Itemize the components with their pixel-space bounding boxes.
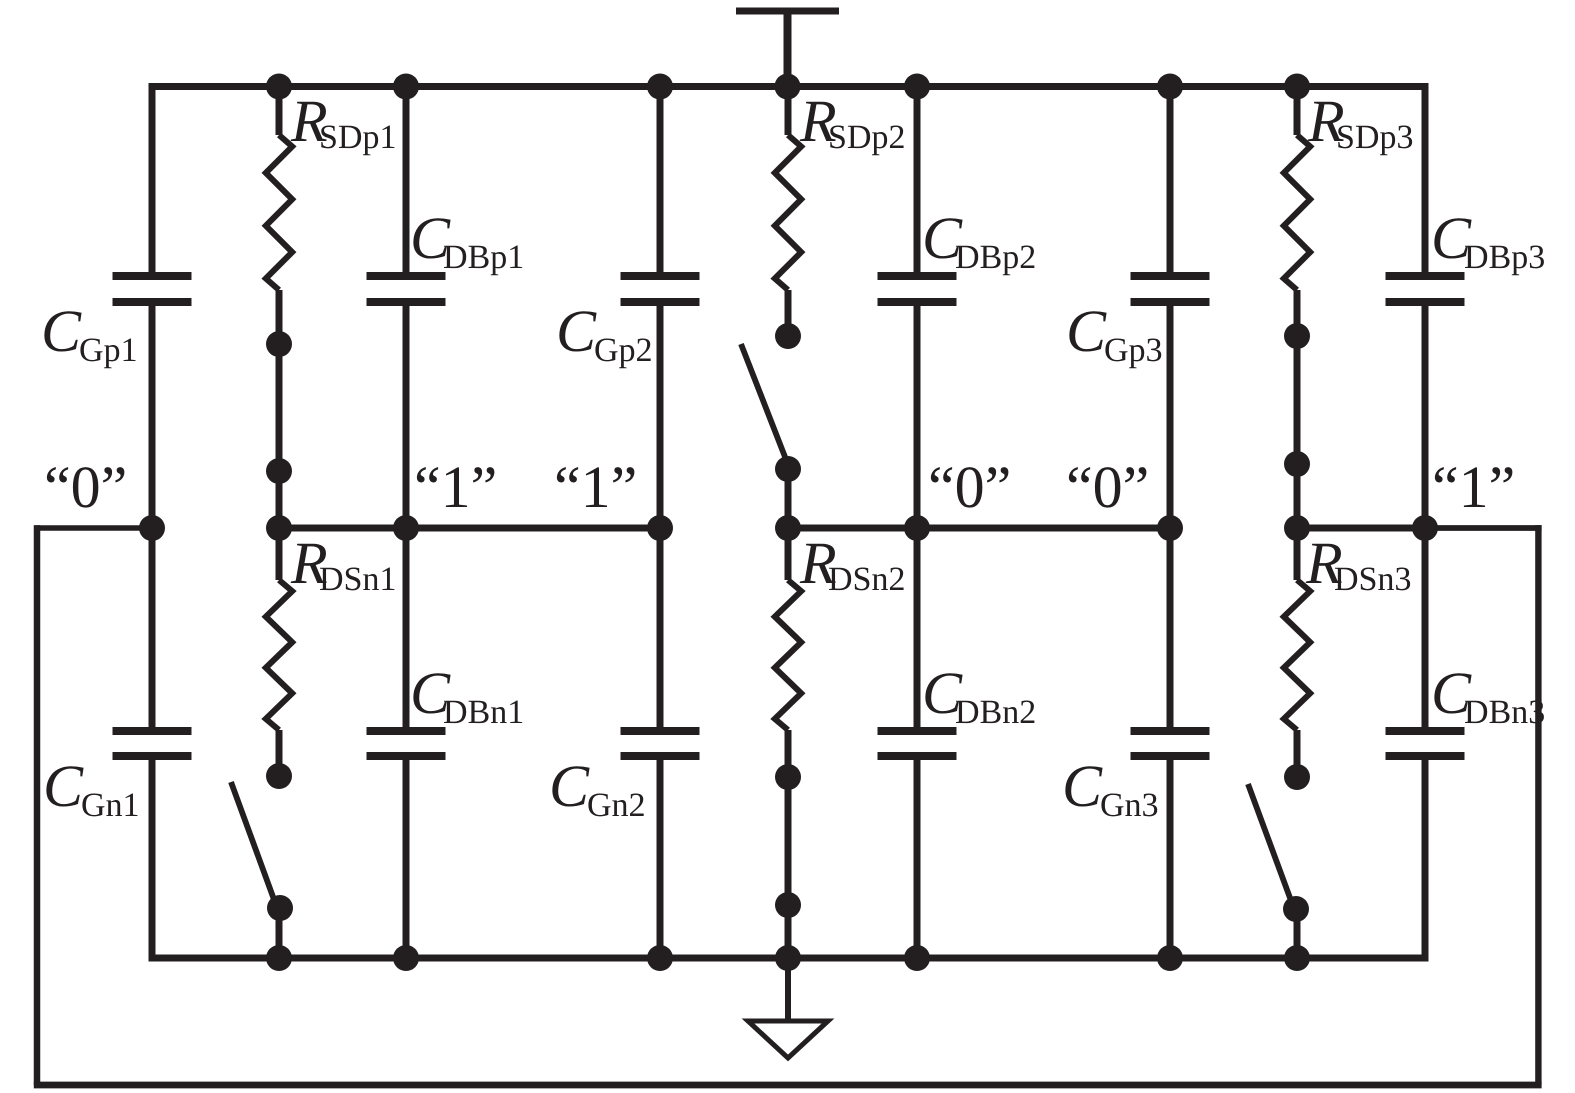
ground symbol bbox=[748, 1021, 828, 1058]
label CGp2 bbox=[559, 311, 650, 368]
label CGp3 bbox=[1069, 311, 1161, 368]
node: junction bottom rail / NMOS3 bbox=[1284, 945, 1310, 971]
wire: bottom rail (ground net) bbox=[149, 955, 1429, 962]
node: junction bottom rail / ground stem bbox=[775, 945, 801, 971]
capacitor CDBp1 bbox=[367, 272, 446, 306]
resistor RSDp1 bbox=[266, 135, 292, 290]
capacitor CDBp2 bbox=[878, 272, 957, 306]
wire: RDSn1 to switch contact bbox=[276, 730, 283, 776]
node: junction middle rail / CDBp3 bbox=[1412, 515, 1438, 541]
label CDBn2 bbox=[925, 673, 1034, 723]
wire: stage1 output node to RDSn1 bbox=[276, 528, 283, 580]
node: junction bottom rail / CDBn1 bbox=[393, 945, 419, 971]
capacitor CDBp3 bbox=[1386, 272, 1465, 306]
wire: CDBn2 to bottom rail bbox=[914, 760, 921, 958]
wire: CDBp1 to stage1 output rail bbox=[403, 306, 410, 528]
node: PMOS2 switch upper contact bbox=[775, 323, 801, 349]
switch PMOS1 (closed) blade bbox=[276, 344, 283, 471]
node: junction top rail / VDD stem / RSDp2 bbox=[775, 74, 801, 100]
node label '0' stage3 input bbox=[1069, 467, 1147, 508]
wire: switch to stage2 output node bbox=[785, 469, 792, 528]
wire: feedback stub to stage1 input node bbox=[38, 525, 153, 531]
node: PMOS3 switch lower contact bbox=[1284, 451, 1310, 477]
label CDBp2 bbox=[925, 218, 1034, 275]
capacitor CDBn3 bbox=[1386, 727, 1465, 760]
label RDSn2 bbox=[800, 544, 904, 591]
wire: stage1 input node to CGn1 bbox=[149, 528, 156, 727]
node: junction top rail / RSDp1 bbox=[266, 74, 292, 100]
wire: top rail to RSDp1 bbox=[276, 87, 283, 136]
node: stage3 input '0' junction bbox=[1157, 515, 1183, 541]
node: stage2 input '1' junction bbox=[647, 515, 673, 541]
capacitor CGp3 bbox=[1131, 272, 1210, 306]
wire: top rail (VDD net) bbox=[149, 83, 1429, 90]
wire: stage2 output rail to CDBn2 bbox=[914, 528, 921, 727]
wire: CDBp2 to stage2 output rail bbox=[914, 306, 921, 528]
wire: top rail to CDBp1 bbox=[403, 87, 410, 273]
capacitor CGp1 bbox=[113, 272, 192, 306]
label RSDp1 bbox=[291, 102, 395, 156]
wire: CGn3 to bottom rail bbox=[1167, 760, 1174, 958]
label CGn2 bbox=[552, 766, 643, 816]
node: junction bottom rail / CGn2 bbox=[647, 945, 673, 971]
label CGn3 bbox=[1065, 766, 1157, 816]
node label '1' stage2 input bbox=[557, 467, 635, 507]
wire: RSDp1 to switch contact bbox=[276, 290, 283, 344]
wire: stage1 output rail to CDBn1 bbox=[403, 528, 410, 727]
wire: ground stem bbox=[785, 958, 791, 1021]
wire: top rail to CGp3 bbox=[1167, 87, 1174, 273]
wire: stage3 output node to RDSn3 bbox=[1294, 528, 1301, 580]
wire: switch to stage1 output node bbox=[276, 471, 283, 528]
wire: stage2 input node to CGn2 bbox=[657, 528, 664, 727]
capacitor CGp2 bbox=[621, 272, 700, 306]
wire: switch to bottom rail bbox=[276, 908, 283, 958]
capacitor CDBn2 bbox=[878, 727, 957, 760]
resistor RSDp2 bbox=[775, 135, 801, 290]
node: junction middle rail / CDBp1 bbox=[393, 515, 419, 541]
wire: CGp3 to stage3 input node bbox=[1167, 306, 1174, 528]
resistor RSDp3 bbox=[1284, 135, 1310, 290]
wire: CDBp3 to stage3 output rail bbox=[1422, 306, 1429, 528]
wire: feedback loop right vertical bbox=[1535, 525, 1541, 1085]
label CDBp1 bbox=[413, 218, 522, 275]
node: stage1 input '0' junction bbox=[139, 515, 165, 541]
node: PMOS3 switch upper contact bbox=[1284, 323, 1310, 349]
capacitor CDBn1 bbox=[367, 727, 446, 760]
node: junction top rail / RSDp3 bbox=[1284, 74, 1310, 100]
node: NMOS2 switch upper contact bbox=[775, 764, 801, 790]
switch NMOS1 (open) blade bbox=[231, 782, 276, 905]
switch NMOS2 (closed) blade bbox=[785, 777, 792, 905]
node: PMOS1 switch lower contact bbox=[266, 458, 292, 484]
wire: CDBn1 to bottom rail bbox=[403, 760, 410, 958]
wire: CGn1 to bottom rail bbox=[149, 760, 156, 962]
resistor RDSn3 bbox=[1284, 580, 1310, 730]
label CGn1 bbox=[46, 766, 137, 816]
wire: stage3 input node to CGn3 bbox=[1167, 528, 1174, 727]
wire: col9 top stem (top rail to CDBp3) bbox=[1422, 83, 1429, 272]
node: junction bottom rail / CGn3 bbox=[1157, 945, 1183, 971]
wire: top rail to RSDp2 bbox=[785, 87, 792, 136]
node label '0' stage1 input bbox=[47, 467, 125, 508]
node: NMOS1 switch lower contact bbox=[267, 895, 293, 921]
wire: RSDp2 to switch contact bbox=[785, 290, 792, 336]
node: NMOS3 switch lower contact bbox=[1283, 896, 1309, 922]
wire: RSDp3 to switch contact bbox=[1294, 290, 1301, 336]
label RDSn1 bbox=[291, 544, 395, 591]
capacitor CGn1 bbox=[113, 727, 192, 760]
label CDBp3 bbox=[1434, 218, 1544, 275]
switch PMOS2 (open) blade bbox=[741, 344, 787, 462]
wire: switch to bottom rail bbox=[785, 905, 792, 958]
wire: middle rail segment stage1 output (net '1') bbox=[276, 525, 664, 532]
node: junction top rail / CDBp1 bbox=[393, 74, 419, 100]
switch NMOS3 (open) blade bbox=[1248, 784, 1293, 906]
resistor RDSn1 bbox=[266, 580, 292, 730]
wire: CGp1 bottom plate to stage1 input node bbox=[149, 306, 156, 528]
label RDSn3 bbox=[1306, 544, 1410, 591]
wire: CGp2 to stage2 input node bbox=[657, 306, 664, 528]
node: junction middle rail / CDBp2 bbox=[904, 515, 930, 541]
node: stage3 output junction (middle rail) bbox=[1284, 515, 1310, 541]
wire: switch to bottom rail bbox=[1294, 909, 1301, 958]
node: stage1 output junction (middle rail) bbox=[266, 515, 292, 541]
wire: VDD stem to top rail bbox=[784, 14, 792, 87]
wire: feedback loop left vertical bbox=[34, 525, 41, 1085]
node: junction top rail / CDBp2 bbox=[904, 74, 930, 100]
node label '1' stage3 output bbox=[1435, 467, 1513, 507]
resistor RDSn2 bbox=[775, 580, 801, 730]
node label '0' stage2 output bbox=[931, 467, 1009, 508]
wire: RDSn2 to switch contact bbox=[785, 730, 792, 777]
node: PMOS1 switch upper contact bbox=[266, 331, 292, 357]
wire: top rail to RSDp3 bbox=[1294, 87, 1301, 136]
node: junction top rail / CGp3 bbox=[1157, 74, 1183, 100]
wire: stage2 output node to RDSn2 bbox=[785, 528, 792, 580]
wire: middle rail segment stage3 output (net '1') bbox=[1294, 525, 1429, 532]
node: NMOS1 switch upper contact bbox=[266, 763, 292, 789]
label CDBn1 bbox=[413, 673, 522, 723]
node label '1' stage1 output bbox=[417, 467, 495, 507]
wire: CGn2 to bottom rail bbox=[657, 760, 664, 958]
label RSDp3 bbox=[1308, 102, 1412, 156]
node: junction bottom rail / CDBn2 bbox=[904, 945, 930, 971]
node: PMOS2 switch lower contact bbox=[775, 456, 801, 482]
node: junction top rail / CGp2 bbox=[647, 74, 673, 100]
wire: CDBn3 to bottom rail bbox=[1422, 760, 1429, 962]
wire: top rail to CGp2 bbox=[657, 87, 664, 273]
wire: feedback loop bottom horizontal bbox=[34, 1082, 1542, 1089]
wire: middle rail segment stage2 output (net '0') bbox=[785, 525, 1174, 532]
capacitor CGn2 bbox=[621, 727, 700, 760]
label CGp1 bbox=[44, 311, 135, 368]
wire: stage3 output rail to CDBn3 bbox=[1422, 528, 1429, 727]
switch PMOS3 (closed) blade bbox=[1294, 336, 1301, 464]
wire: RDSn3 to switch contact bbox=[1294, 730, 1301, 777]
wire: col1 top stem (top rail to CGp1) bbox=[149, 83, 156, 272]
node: NMOS2 switch lower contact bbox=[775, 892, 801, 918]
node: NMOS3 switch upper contact bbox=[1284, 764, 1310, 790]
wire: switch to stage3 output node bbox=[1294, 464, 1301, 528]
capacitor CGn3 bbox=[1131, 727, 1210, 760]
label RSDp2 bbox=[800, 102, 904, 156]
node: stage2 output junction (middle rail) bbox=[775, 515, 801, 541]
label CDBn3 bbox=[1434, 673, 1544, 723]
node: junction bottom rail / NMOS1 bbox=[266, 945, 292, 971]
VDD supply bar bbox=[736, 8, 839, 15]
wire: stage3 output extension to feedback loop bbox=[1425, 525, 1542, 531]
wire: top rail to CDBp2 bbox=[914, 87, 921, 273]
